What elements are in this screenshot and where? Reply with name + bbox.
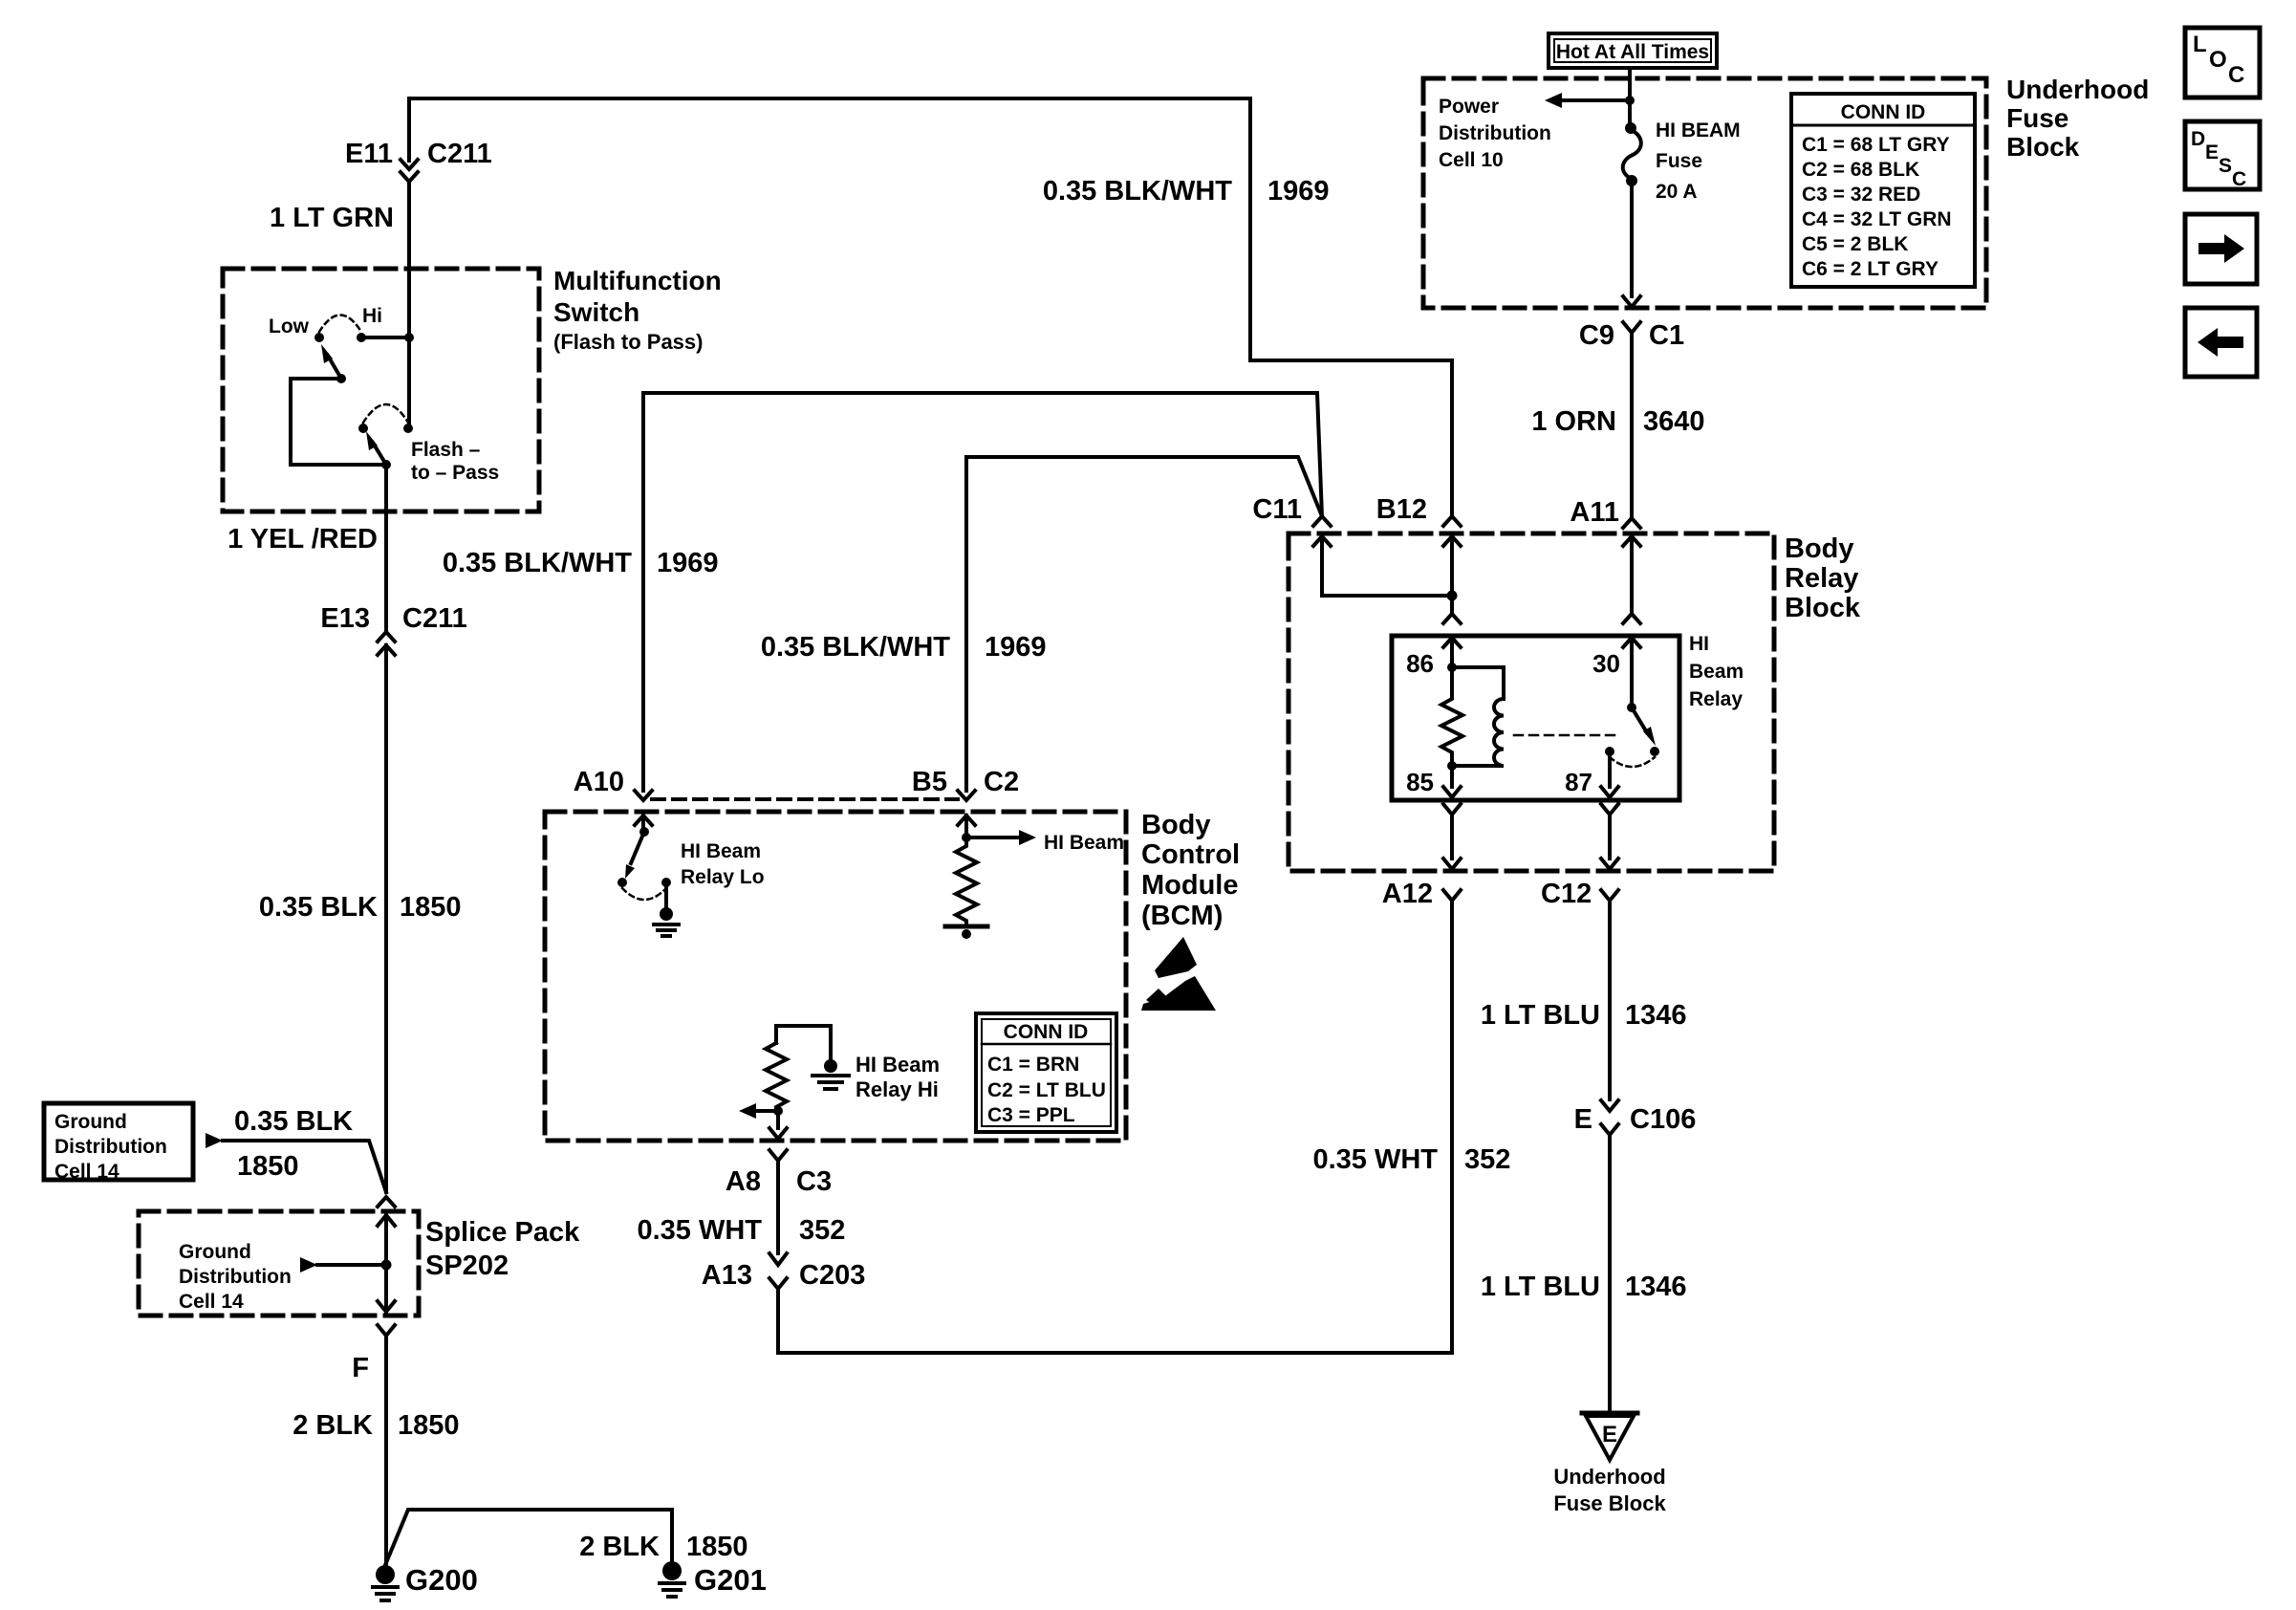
svg-text:Control: Control [1141, 839, 1240, 870]
connector chevron below relay pin 85 [1443, 804, 1461, 859]
label Splice Pack SP202 [425, 1217, 580, 1281]
relay coil resistor [1441, 667, 1462, 766]
node: relay lo right contact dot [661, 878, 671, 887]
wire: 0.35 BLK 1850 from E13 down to splice pack [384, 645, 388, 1192]
svg-text:1 YEL /RED: 1 YEL /RED [227, 524, 378, 555]
node: junction dot at power feed [1625, 96, 1635, 105]
label Underhood Fuse Block [2006, 75, 2149, 162]
svg-text:2 BLK: 2 BLK [292, 1410, 373, 1441]
wire: net 1969 from top corner to B12 [1250, 98, 1452, 516]
svg-text:86: 86 [1406, 649, 1434, 678]
svg-text:HI: HI [1689, 633, 1709, 655]
dashed arc between flash-to-pass contacts [363, 404, 408, 423]
svg-text:Cell 14: Cell 14 [54, 1161, 119, 1183]
svg-text:0.35 BLK: 0.35 BLK [234, 1106, 353, 1137]
DESC icon box [2185, 121, 2260, 190]
relay coil inductor [1452, 667, 1504, 766]
wire: 1 YEL /RED from flash-to-pass pivot down to E13 [384, 465, 388, 632]
node: relay lo pivot dot [617, 878, 627, 887]
svg-text:HI Beam: HI Beam [681, 840, 761, 862]
connector chevron above splice pack [378, 1197, 395, 1207]
connector chevron at A11 [1623, 518, 1640, 528]
svg-text:Block: Block [1785, 593, 1861, 623]
svg-text:SP202: SP202 [425, 1251, 509, 1281]
body relay block dashed box [1289, 533, 1774, 871]
ground G201 [660, 1561, 684, 1597]
dashed arc pin 87 to contact [1610, 757, 1655, 767]
svg-text:1850: 1850 [237, 1151, 299, 1182]
resistor HI Beam (B5) [956, 838, 977, 925]
svg-text:E: E [2205, 141, 2219, 163]
svg-text:C12: C12 [1541, 879, 1592, 909]
fuse HI BEAM 20 A [1623, 122, 1641, 186]
BCM CONN ID box [976, 1013, 1116, 1132]
arrow down at body relay block bottom (A12) [1443, 859, 1461, 869]
node: relay hi junction dot [773, 1106, 783, 1116]
svg-text:HI BEAM: HI BEAM [1656, 120, 1741, 141]
svg-text:D: D [2191, 128, 2205, 150]
multifunction switch dashed box [223, 269, 539, 511]
svg-text:Distribution: Distribution [179, 1266, 292, 1288]
wire: 0.35 WHT 352 from A13 to A12 riser [778, 903, 1452, 1353]
svg-text:Ground: Ground [54, 1111, 127, 1133]
relay pin 85 wire down with arrow [1443, 766, 1461, 797]
wire: branch to G201 [385, 1510, 672, 1571]
svg-text:B5: B5 [912, 767, 947, 797]
svg-text:C203: C203 [799, 1260, 865, 1291]
relay box HI Beam Relay [1392, 636, 1679, 800]
svg-text:C: C [2232, 168, 2246, 190]
wire from fuse down to C9 with arrow [1623, 181, 1640, 307]
wire: Hi contact to main wire [361, 336, 409, 339]
connector chevron at B5 [958, 791, 975, 800]
node: arm pivot dot [336, 374, 346, 383]
switch arm HI Beam Relay Lo with arrowhead [625, 832, 644, 879]
node: junction dot B12/C11 [1447, 591, 1458, 601]
connector chevron below splice pack (F) [378, 1325, 395, 1575]
ground inside BCM (relay hi) [812, 1059, 849, 1089]
right arrow icon box [2185, 214, 2257, 284]
svg-text:1969: 1969 [657, 548, 719, 578]
svg-text:O: O [2209, 47, 2227, 73]
node: A10 switch top dot [639, 827, 649, 837]
svg-text:1 ORN: 1 ORN [1531, 406, 1616, 437]
label Underhood Fuse Block (bottom) [1553, 1465, 1666, 1515]
node: relay coil top dot [1447, 663, 1457, 672]
svg-text:C3 = 32 RED: C3 = 32 RED [1802, 184, 1920, 206]
power reference triangle E [1582, 1413, 1637, 1460]
arrow down at splice pack bottom [378, 1301, 395, 1312]
arrow up below C11 and wire to junction [1313, 536, 1452, 596]
connector chevron above relay pin 30 [1623, 614, 1640, 623]
svg-text:1850: 1850 [398, 1410, 460, 1441]
svg-text:Relay: Relay [1689, 688, 1743, 710]
arrow left to power distribution [1545, 93, 1630, 108]
label HI Beam Relay Lo [681, 840, 765, 888]
svg-text:C9: C9 [1579, 320, 1614, 351]
svg-text:1850: 1850 [686, 1532, 748, 1562]
wire: E11 vertical upper segment [407, 98, 411, 161]
svg-text:Fuse: Fuse [1656, 150, 1702, 172]
relay pin 86 arrow inside [1443, 638, 1461, 667]
svg-text:B12: B12 [1376, 494, 1427, 525]
svg-text:Fuse Block: Fuse Block [1553, 1491, 1666, 1515]
connector chevron at C11 [1313, 516, 1331, 526]
svg-text:2 BLK: 2 BLK [579, 1532, 660, 1562]
svg-text:Beam: Beam [1689, 661, 1744, 683]
svg-text:Relay Hi: Relay Hi [856, 1077, 939, 1101]
svg-text:Hi: Hi [362, 305, 382, 327]
terminal bar and dot below resistor [945, 926, 987, 939]
wire: 0.35 BLK/WHT 1969 from B5 up and right to C11 [966, 457, 1322, 791]
svg-text:1969: 1969 [1267, 176, 1330, 207]
svg-text:Cell 10: Cell 10 [1439, 149, 1504, 171]
node: Low contact dot [314, 333, 324, 342]
connector chevron below BCM at A8 [769, 1150, 787, 1253]
svg-text:C211: C211 [427, 139, 492, 169]
svg-text:0.35 BLK: 0.35 BLK [259, 892, 378, 923]
svg-text:A10: A10 [574, 767, 624, 797]
svg-text:Underhood: Underhood [1553, 1465, 1665, 1489]
splice pack SP202 dashed box [139, 1211, 419, 1316]
svg-text:1346: 1346 [1625, 1272, 1687, 1302]
arrow up at B5 inside BCM [958, 816, 975, 838]
connector chevron at B12 [1443, 516, 1461, 526]
svg-text:C5 = 2 BLK: C5 = 2 BLK [1802, 233, 1908, 255]
svg-text:C2 = 68 BLK: C2 = 68 BLK [1802, 159, 1919, 181]
svg-text:Underhood: Underhood [2006, 75, 2149, 104]
svg-text:Ground: Ground [179, 1241, 251, 1263]
svg-text:C106: C106 [1630, 1104, 1696, 1135]
connector dashed link A10 to B5 [652, 797, 958, 801]
label Flash - to - Pass [411, 439, 499, 484]
svg-text:Switch: Switch [553, 297, 639, 327]
svg-text:0.35 BLK/WHT: 0.35 BLK/WHT [1043, 176, 1232, 207]
node: B5 resistor top dot [962, 833, 971, 842]
wire: 1 LT GRN from C211 into multifunction switch [407, 182, 411, 428]
svg-text:Block: Block [2006, 132, 2080, 162]
svg-text:C1 = 68 LT GRY: C1 = 68 LT GRY [1802, 134, 1950, 156]
svg-text:1 LT BLU: 1 LT BLU [1481, 1272, 1600, 1302]
svg-text:30: 30 [1592, 649, 1620, 678]
svg-text:Splice Pack: Splice Pack [425, 1217, 580, 1248]
svg-text:Relay: Relay [1785, 563, 1858, 594]
label HI Beam Relay [1689, 633, 1744, 710]
svg-text:0.35 BLK/WHT: 0.35 BLK/WHT [443, 548, 632, 578]
svg-text:C3 = PPL: C3 = PPL [987, 1104, 1075, 1126]
ground G200 [373, 1565, 398, 1600]
svg-text:Flash –: Flash – [411, 439, 481, 461]
connector chevron at A10 [635, 791, 652, 800]
svg-text:HI Beam: HI Beam [1044, 832, 1124, 854]
switch arm Low/Hi with arrowhead [321, 344, 341, 379]
connector C9/C1 chevron [1623, 322, 1640, 516]
dashed arc between Low and Hi contacts [319, 315, 361, 333]
svg-text:1969: 1969 [985, 632, 1047, 663]
ground inside BCM (relay lo) [654, 882, 679, 936]
arrow down at body relay block bottom (C12) [1601, 859, 1618, 869]
svg-text:S: S [2219, 155, 2232, 177]
node: splice junction dot [381, 1260, 392, 1271]
ESD symbol [1141, 937, 1216, 1011]
relay pin 30 arrow inside [1623, 638, 1640, 707]
svg-text:87: 87 [1565, 768, 1592, 796]
arrow up below A11 [1623, 536, 1640, 612]
connector chevron below relay pin 87 [1601, 804, 1618, 859]
svg-text:1 LT BLU: 1 LT BLU [1481, 1000, 1600, 1031]
wire from Hot At All Times into fuse [1628, 68, 1632, 125]
svg-text:Relay Lo: Relay Lo [681, 866, 765, 888]
svg-text:C1 = BRN: C1 = BRN [987, 1054, 1079, 1076]
svg-text:CONN ID: CONN ID [1004, 1021, 1089, 1043]
ground distribution cell 14 reference box [44, 1103, 193, 1180]
svg-text:352: 352 [799, 1215, 845, 1246]
connector C106 at E (arrow down + chevron) [1601, 1100, 1618, 1413]
label Power Distribution Cell 10 [1439, 96, 1551, 171]
svg-text:HI Beam: HI Beam [856, 1053, 940, 1077]
svg-text:Distribution: Distribution [54, 1136, 167, 1158]
svg-text:1850: 1850 [400, 892, 462, 923]
svg-text:Power: Power [1439, 96, 1499, 118]
svg-text:C: C [2228, 62, 2244, 88]
svg-text:E: E [1602, 1422, 1617, 1447]
connector C211 at E13 (chevron up + arrow up) [378, 632, 395, 655]
svg-text:E: E [1574, 1104, 1592, 1135]
off-page arrow inside splice pack [300, 1257, 317, 1273]
body control module dashed box [545, 812, 1126, 1141]
svg-text:CONN ID: CONN ID [1841, 101, 1926, 123]
dashed line coil to switch [1514, 734, 1615, 737]
label HI BEAM Fuse 20 A [1656, 120, 1741, 203]
arrow up inside splice pack [378, 1215, 395, 1312]
svg-text:A11: A11 [1570, 497, 1619, 528]
arrow right HI Beam output [966, 830, 1036, 845]
svg-text:C2: C2 [984, 767, 1019, 797]
label Multifunction Switch (Flash to Pass) [553, 266, 722, 354]
relay switch arm with arrowhead [1632, 707, 1656, 746]
svg-text:(BCM): (BCM) [1141, 901, 1223, 931]
svg-text:(Flash to Pass): (Flash to Pass) [553, 330, 703, 354]
wire down from relay hi junction with arrow [769, 1111, 787, 1139]
connector chevron above relay pin 86 [1443, 614, 1461, 623]
svg-text:Hot At All Times: Hot At All Times [1556, 41, 1709, 63]
svg-text:1346: 1346 [1625, 1000, 1687, 1031]
svg-text:0.35 WHT: 0.35 WHT [1312, 1144, 1438, 1175]
svg-text:to – Pass: to – Pass [411, 462, 499, 484]
label CONN ID (BCM) [987, 1021, 1106, 1126]
svg-text:A8: A8 [726, 1166, 761, 1197]
label HI Beam Relay Hi [856, 1053, 940, 1101]
node: relay pin 87 dot [1605, 747, 1614, 756]
node: relay switch contact dot [1650, 747, 1659, 756]
svg-text:Body: Body [1141, 810, 1211, 840]
node: relay switch pivot dot [1627, 703, 1636, 712]
svg-text:0.35 WHT: 0.35 WHT [637, 1215, 762, 1246]
wire: 0.35 BLK 1850 from ground distribution to splice pack [223, 1141, 386, 1192]
node: flash-to-pass pivot dot [381, 460, 391, 469]
svg-text:C3: C3 [796, 1166, 832, 1197]
wire from arrow to splice junction [317, 1263, 386, 1267]
svg-text:Distribution: Distribution [1439, 122, 1551, 144]
svg-text:0.35 BLK/WHT: 0.35 BLK/WHT [761, 632, 950, 663]
relay pin 87 wire down with arrow [1601, 751, 1618, 797]
svg-text:L: L [2193, 32, 2207, 57]
connector C203 at A13 (arrow down + chevron) [769, 1253, 787, 1289]
svg-text:G201: G201 [694, 1563, 767, 1597]
wire: 0.35 BLK/WHT 1969 from A10 up and right to C11 [643, 393, 1322, 791]
svg-text:1 LT GRN: 1 LT GRN [270, 203, 394, 233]
underhood fuse block dashed box [1423, 78, 1986, 308]
connector chevron below block at A12 [1443, 890, 1461, 901]
svg-text:Low: Low [269, 315, 310, 337]
svg-text:Module: Module [1141, 870, 1239, 901]
arrow left from relay hi junction [739, 1103, 778, 1119]
node: Hi contact dot [357, 333, 366, 342]
arrow up below B12 [1443, 536, 1461, 612]
svg-text:Multifunction: Multifunction [553, 266, 722, 295]
svg-text:352: 352 [1464, 1144, 1510, 1175]
node: flash-to-pass left contact dot [358, 424, 368, 433]
switch arm flash-to-pass with arrowhead [366, 431, 386, 465]
label Body Control Module (BCM) [1141, 810, 1240, 931]
svg-text:A12: A12 [1382, 879, 1433, 909]
LOC icon box [2185, 28, 2260, 98]
Hot At All Times box [1549, 33, 1717, 68]
label Body Relay Block [1785, 533, 1861, 623]
off-page arrow from ground distribution box [206, 1133, 223, 1148]
svg-text:C2 = LT BLU: C2 = LT BLU [987, 1079, 1106, 1101]
node: flash-to-pass right contact dot (end of main wire) [403, 424, 413, 433]
connector chevron below block at C12 [1601, 890, 1618, 1099]
node: relay coil bottom dot [1447, 761, 1457, 771]
svg-text:E11: E11 [345, 139, 393, 169]
label CONN ID (underhood) [1802, 101, 1952, 280]
node: junction dot on main wire at Hi [404, 333, 414, 342]
svg-text:3640: 3640 [1643, 406, 1705, 437]
svg-text:85: 85 [1406, 768, 1434, 796]
wire: top horizontal net 1969 from E11 to corner [409, 97, 1250, 100]
svg-text:C11: C11 [1252, 494, 1302, 525]
svg-text:G200: G200 [405, 1563, 478, 1597]
svg-text:Fuse: Fuse [2006, 103, 2069, 133]
svg-text:Cell 14: Cell 14 [179, 1291, 244, 1313]
svg-text:C4 = 32 LT GRN: C4 = 32 LT GRN [1802, 208, 1952, 230]
connector C211 at E11 (arrow down + chevron) [401, 160, 418, 182]
svg-text:C6 = 2 LT GRY: C6 = 2 LT GRY [1802, 258, 1939, 280]
arrow up at A10 inside BCM [635, 816, 652, 832]
dashed arc between relay lo contacts [622, 888, 666, 900]
wire: L-link from arm pivot to flash-to-pass pivot [291, 379, 386, 465]
svg-text:C1: C1 [1649, 320, 1684, 351]
svg-text:Body: Body [1785, 533, 1854, 564]
svg-text:20 A: 20 A [1656, 181, 1698, 203]
svg-text:F: F [352, 1353, 369, 1383]
svg-text:E13: E13 [320, 603, 370, 634]
svg-text:C211: C211 [402, 603, 467, 634]
left arrow icon box [2185, 308, 2257, 377]
svg-text:A13: A13 [702, 1260, 752, 1291]
underhood fuse block CONN ID box [1791, 94, 1975, 287]
label Ground Distribution Cell 14 (inside splice pack) [179, 1241, 292, 1313]
resistor HI Beam Relay Hi with bracket [766, 1026, 831, 1111]
